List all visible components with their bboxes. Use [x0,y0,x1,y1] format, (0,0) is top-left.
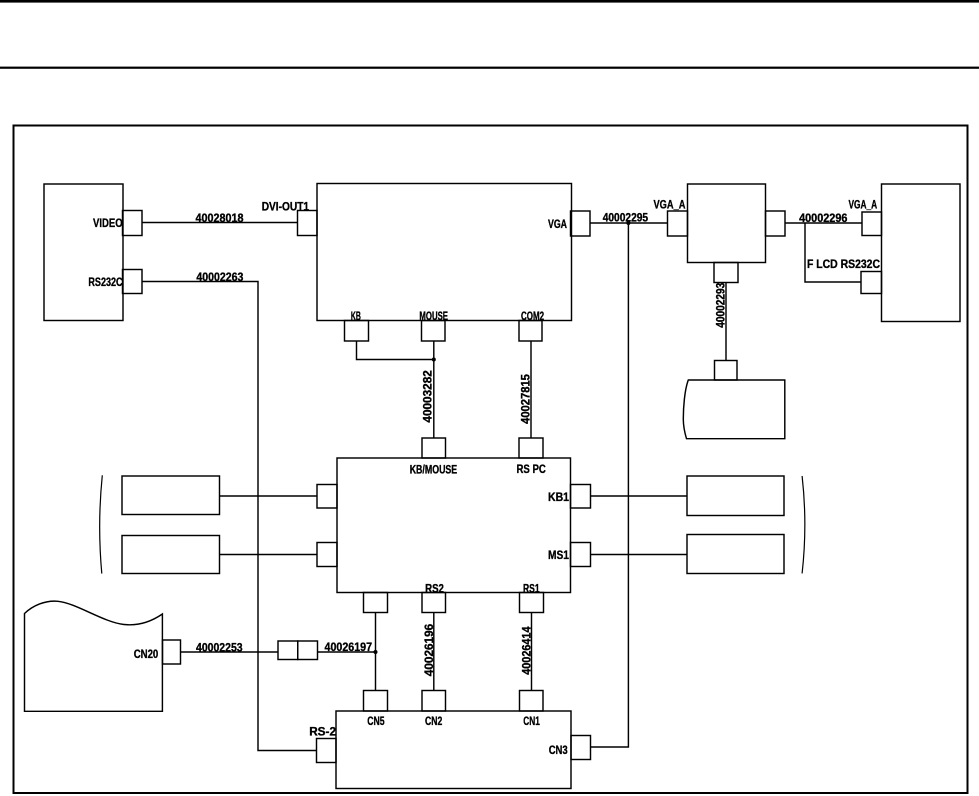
svg-text:MOUSE: MOUSE [419,309,448,323]
wire 40003282 MOUSE to KB/MOUSE [433,341,435,438]
connector touch unit top [715,361,738,381]
node junction CN5 line [374,650,378,654]
node junction 40002295 branch [626,221,630,225]
svg-text:KB: KB [351,309,361,323]
wire 40002293 splitter to touch unit [725,283,727,361]
block keyboard left [122,476,220,515]
wire KVM bottom left to CN5 [375,613,377,691]
svg-text:KB/MOUSE: KB/MOUSE [410,462,458,476]
svg-text:40026196: 40026196 [422,623,436,676]
svg-text:RS2: RS2 [425,581,444,595]
svg-text:CN3: CN3 [549,743,568,757]
connector VGA_A left [668,211,688,236]
wire branch to F LCD RS232C [805,223,861,282]
block mouse right [687,535,784,574]
block serial distribution unit [336,711,571,789]
wire MS1 to right mouse [591,554,688,556]
connector CN2 [422,691,446,712]
connector COM2 [519,321,542,342]
svg-text:KB1: KB1 [548,490,569,504]
wire KB to junction [357,341,434,360]
block main controller [317,184,572,321]
wire 40026196 RS2 to CN2 [433,613,435,691]
wire left mouse to KVM [220,554,318,556]
connector CN20 [163,640,181,664]
title block top rule [0,0,979,3]
svg-text:RS1: RS1 [523,581,540,595]
svg-text:40002296: 40002296 [799,211,848,225]
wire 40028018 VIDEO to DVI-OUT1 [142,222,298,224]
block VGA splitter [688,184,766,263]
svg-text:F LCD RS232C: F LCD RS232C [807,257,880,271]
connector CN5 [364,691,388,712]
svg-text:40002263: 40002263 [196,270,243,284]
svg-text:VGA_A: VGA_A [849,198,878,212]
wire 40026414 RS1 to CN1 [531,613,533,691]
connector MOUSE [422,321,446,342]
wire 40002263 RS232C to RS-2 [142,282,317,751]
svg-text:40026197: 40026197 [325,640,373,654]
connector DVI-OUT1 [298,211,318,236]
connector RS2 [422,593,446,613]
wire 40002296 splitter to LCD unit [785,222,862,224]
wire 40027815 COM2 to RS PC [530,341,532,438]
connector CN3 [571,736,591,760]
connector VGA_A right [862,212,882,236]
connector left 1 [317,485,337,509]
inline coupler left [278,641,298,660]
connector KB/MOUSE [422,438,446,458]
svg-text:COM2: COM2 [521,309,544,323]
connector bottom left [364,593,388,613]
connector KB1 [571,485,591,509]
connector splitter bottom [714,263,738,283]
block keyboard right [687,476,784,516]
svg-text:40026414: 40026414 [519,626,533,675]
connector RS1 [520,593,544,613]
connector KB [345,321,369,342]
connector VIDEO [123,211,143,236]
wire 40026197 coupler to CN5 line [318,651,376,653]
svg-text:RS PC: RS PC [517,462,547,476]
block mouse left [122,536,220,574]
block CN20 unit (torn top edge) [25,601,163,711]
connector VGA [571,211,591,236]
svg-text:VGA_A: VGA_A [654,198,686,212]
node junction KB/MOUSE [432,358,436,362]
svg-text:VIDEO: VIDEO [93,216,123,230]
continuation paren right [802,476,805,573]
wire 40002253 CN20 to inline coupler [181,651,279,653]
block KVM switch [337,458,571,593]
svg-text:RS-2: RS-2 [309,725,336,739]
svg-text:40002293: 40002293 [714,282,728,327]
svg-text:CN2: CN2 [425,714,443,728]
inline coupler right [298,641,318,660]
block LCD unit [882,184,961,322]
continuation paren left [100,475,103,573]
wire 40002295 VGA to VGA_A splitter [590,222,668,224]
block monitor unit (VIDEO/RS232C) [44,184,123,321]
svg-text:DVI-OUT1: DVI-OUT1 [262,200,310,214]
connector MS1 [571,543,591,567]
connector F LCD RS232C [861,272,882,294]
wire left keyboard to KVM [220,495,318,497]
svg-text:40028018: 40028018 [196,211,244,225]
svg-text:CN5: CN5 [367,714,385,728]
svg-text:RS232C: RS232C [88,275,122,289]
svg-text:40003282: 40003282 [421,370,435,423]
svg-text:VGA: VGA [548,217,567,231]
svg-text:MS1: MS1 [548,548,569,562]
connector RS232C [123,270,143,294]
svg-text:40027815: 40027815 [519,374,533,424]
svg-text:CN20: CN20 [134,647,159,661]
connector CN1 [520,691,544,712]
svg-text:40002295: 40002295 [603,210,649,224]
svg-text:40002253: 40002253 [196,640,243,654]
connector left 2 [317,543,337,567]
connector RS PC [519,438,543,458]
wire branch to CN3 [591,223,629,747]
connector RS-2 [317,739,337,763]
block touch unit (torn left edge) [683,380,785,439]
title block bottom rule [0,67,979,69]
wire KB1 to right keyboard [591,495,688,497]
connector splitter right [766,211,786,236]
svg-text:CN1: CN1 [523,714,540,728]
